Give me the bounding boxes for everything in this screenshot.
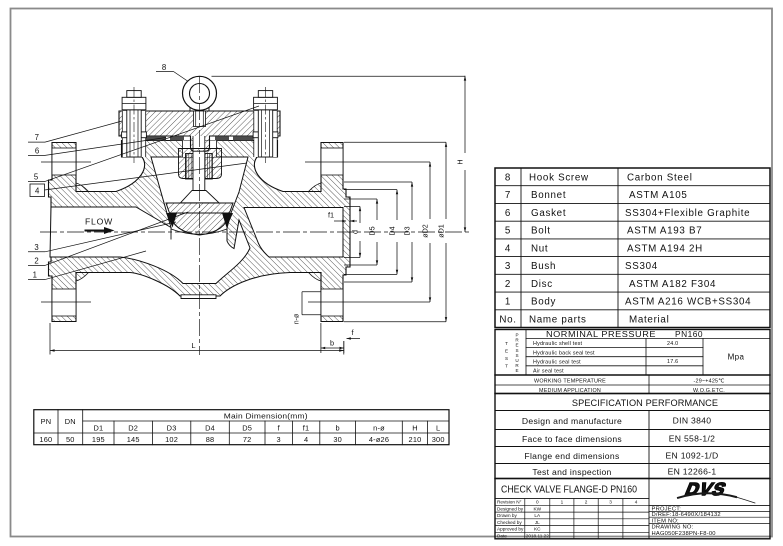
H dimension line with top connector: [212, 75, 466, 77]
svg-text:Checked by: Checked by: [497, 520, 522, 525]
svg-text:H: H: [456, 159, 465, 164]
svg-text:EN 558-1/2: EN 558-1/2: [669, 434, 715, 444]
svg-text:300: 300: [432, 435, 445, 444]
nut 4 left / centerline: [133, 87, 135, 163]
svg-text:ASTM A216 WCB+SS304: ASTM A216 WCB+SS304: [625, 297, 751, 308]
svg-text:4: 4: [505, 243, 511, 254]
dimension oD2: [429, 162, 431, 302]
svg-text:160: 160: [39, 435, 52, 444]
svg-text:T: T: [505, 341, 508, 346]
svg-text:Hook Screw: Hook Screw: [529, 173, 589, 184]
svg-text:KC: KC: [534, 527, 541, 532]
svg-text:D3: D3: [403, 226, 412, 235]
valve stem: [193, 151, 205, 191]
svg-text:n-ø: n-ø: [294, 313, 301, 324]
revision table: [495, 499, 649, 539]
svg-text:2: 2: [505, 279, 511, 290]
parts list text: [499, 173, 751, 326]
pressure test table grid: [495, 330, 770, 394]
body 1 : main casting cross-section (hatched): [49, 141, 351, 322]
disc seal faces (solid black wedges): [166, 213, 177, 228]
svg-text:Bolt: Bolt: [531, 226, 551, 237]
svg-text:EN 12266-1: EN 12266-1: [668, 467, 717, 477]
svg-text:Bonnet: Bonnet: [531, 190, 566, 201]
svg-text:D4: D4: [205, 423, 215, 432]
left flange bolt hole (bottom): [52, 289, 76, 316]
gasket 6 (dark strips): [146, 137, 166, 141]
svg-text:L: L: [191, 341, 195, 350]
pressure table text: [546, 329, 703, 339]
svg-text:T: T: [505, 364, 508, 369]
specification performance table: [495, 394, 770, 479]
project info block: [649, 512, 770, 524]
svg-text:2: 2: [34, 257, 38, 266]
dimension D5: [344, 199, 377, 265]
svg-text:Hydraulic seal test: Hydraulic seal test: [533, 359, 581, 365]
svg-text:ASTM A105: ASTM A105: [629, 190, 688, 201]
svg-text:195: 195: [92, 435, 105, 444]
svg-text:210: 210: [409, 435, 422, 444]
svg-text:2018.11.22: 2018.11.22: [526, 533, 550, 538]
svg-text:f: f: [351, 328, 354, 337]
bonnet 7 (hatched slab + center boss): [119, 111, 280, 151]
svg-text:Designed by: Designed by: [497, 506, 524, 511]
dimension n-o (bolt hole callout): [302, 292, 321, 315]
svg-text:7: 7: [505, 190, 511, 201]
svg-text:Mpa: Mpa: [728, 353, 745, 362]
svg-text:SS304: SS304: [625, 261, 658, 272]
svg-text:LA: LA: [534, 513, 541, 518]
svg-text:Revision N°: Revision N°: [497, 500, 522, 505]
right flange bolt hole (top): [321, 148, 343, 175]
svg-text:b: b: [330, 339, 334, 348]
svg-text:Material: Material: [629, 314, 669, 325]
svg-text:D/REF:18-6490X/184132: D/REF:18-6490X/184132: [652, 512, 721, 518]
svg-text:ASTM A182 F304: ASTM A182 F304: [629, 279, 716, 290]
svg-text:DN: DN: [65, 417, 76, 426]
svg-text:102: 102: [165, 435, 178, 444]
svg-text:6: 6: [35, 147, 39, 156]
svg-text:Body: Body: [531, 297, 556, 308]
nut 4 right / centerline: [265, 87, 267, 163]
svg-text:D3: D3: [167, 423, 177, 432]
svg-text:KW: KW: [534, 506, 542, 511]
svg-text:145: 145: [127, 435, 140, 444]
svg-text:ASTM A193 B7: ASTM A193 B7: [627, 226, 702, 237]
svg-text:Hydraulic shell test: Hydraulic shell test: [533, 341, 583, 347]
bolt 5 left stud: [122, 91, 147, 157]
svg-text:D4: D4: [388, 226, 397, 235]
svg-text:8: 8: [505, 173, 511, 184]
bush 3 (threaded guide bushes): [186, 154, 194, 180]
svg-text:24.0: 24.0: [667, 341, 678, 347]
svg-text:Design and manufacture: Design and manufacture: [522, 416, 622, 426]
svg-text:4: 4: [304, 435, 308, 444]
svg-text:88: 88: [206, 435, 215, 444]
svg-text:72: 72: [243, 435, 252, 444]
stem centerline: [199, 76, 201, 355]
svg-text:FLOW: FLOW: [85, 217, 113, 227]
svg-text:5: 5: [34, 173, 39, 182]
svg-text:Name parts: Name parts: [529, 314, 587, 325]
svg-text:L: L: [436, 423, 440, 432]
svg-text:17.6: 17.6: [667, 359, 678, 365]
svg-text:Disc: Disc: [531, 279, 553, 290]
svg-text:Hydraulic back seal test: Hydraulic back seal test: [533, 350, 595, 356]
parts list table grid: [495, 168, 770, 328]
svg-text:f1: f1: [303, 423, 310, 432]
svg-text:øD1: øD1: [437, 224, 446, 238]
svg-text:DIN 3840: DIN 3840: [673, 416, 712, 426]
svg-text:NORMINAL PRESSURE: NORMINAL PRESSURE: [546, 329, 656, 339]
svg-text:E: E: [515, 368, 518, 373]
svg-text:3: 3: [34, 243, 38, 252]
svg-text:E: E: [505, 349, 508, 354]
svg-text:ITEM NO:: ITEM NO:: [652, 518, 680, 524]
svg-text:D1: D1: [93, 423, 103, 432]
svg-text:Main Dimension(mm): Main Dimension(mm): [224, 412, 308, 421]
hub fillets at flange-to-pipe transitions: [76, 183, 89, 192]
svg-text:d: d: [351, 230, 360, 234]
svg-text:Drawn by: Drawn by: [497, 513, 517, 518]
svg-text:SPECIFICATION PERFORMANCE: SPECIFICATION PERFORMANCE: [572, 398, 718, 408]
svg-text:ASTM A194 2H: ASTM A194 2H: [627, 243, 703, 254]
dimension oD1: [344, 142, 446, 321]
part label 4 (boxed) leader: [30, 184, 45, 197]
svg-text:1: 1: [505, 297, 511, 308]
svg-text:Gasket: Gasket: [531, 208, 566, 219]
outlet bore cavity: [244, 208, 343, 258]
svg-text:6: 6: [505, 208, 511, 219]
internal cavity (flow passage + chamber): [50, 157, 250, 284]
svg-text:3: 3: [505, 261, 511, 272]
svg-text:No.: No.: [499, 314, 516, 325]
dimension b: [320, 323, 322, 353]
body bottom boss: [181, 295, 216, 299]
svg-text:3: 3: [277, 435, 281, 444]
svg-text:Bush: Bush: [531, 261, 556, 272]
body flange center opening: [183, 141, 217, 158]
svg-text:5: 5: [505, 226, 511, 237]
dimension D4: [344, 190, 397, 275]
svg-text:b: b: [336, 423, 340, 432]
svg-text:4: 4: [635, 500, 638, 505]
svg-text:50: 50: [66, 435, 75, 444]
left flange bolt hole (top): [52, 148, 76, 175]
hook screw 8 (eyebolt ring): [190, 105, 209, 111]
svg-text:SS304+Flexible Graphite: SS304+Flexible Graphite: [625, 208, 750, 219]
svg-text:D5: D5: [368, 226, 377, 235]
svg-text:1: 1: [561, 500, 564, 505]
svg-text:HAG050F238PN-F8-00: HAG050F238PN-F8-00: [652, 531, 716, 537]
svg-text:7: 7: [35, 133, 39, 142]
title row: check valve: [495, 479, 770, 539]
svg-text:8: 8: [162, 63, 166, 72]
svg-text:PN160: PN160: [675, 329, 703, 339]
svg-text:EN 1092-1/D: EN 1092-1/D: [666, 451, 719, 461]
svg-text:f1: f1: [328, 211, 334, 220]
dimension d: [344, 207, 360, 258]
stem guide boss (hatched): [179, 149, 222, 179]
svg-text:D5: D5: [242, 423, 252, 432]
vertical TEST PRESSURE strip: [505, 333, 519, 374]
stem hole through bonnet boss: [193, 136, 205, 151]
dimension D3: [344, 182, 412, 282]
svg-text:CHECK VALVE FLANGE-D PN160: CHECK VALVE FLANGE-D PN160: [501, 485, 637, 496]
eyebolt threaded hole in bonnet: [194, 111, 206, 127]
svg-text:Date: Date: [497, 533, 507, 538]
svg-text:Carbon Steel: Carbon Steel: [627, 173, 693, 184]
svg-text:30: 30: [333, 435, 342, 444]
svg-text:JL: JL: [535, 520, 540, 525]
svg-text:f: f: [278, 423, 281, 432]
disc 2 (plate + dome, hatched): [166, 203, 233, 213]
svg-text:H: H: [412, 423, 418, 432]
svg-text:Nut: Nut: [531, 243, 548, 254]
svg-text:2: 2: [585, 500, 588, 505]
svg-text:1: 1: [33, 271, 37, 280]
svg-text:DRAWING NO:: DRAWING NO:: [652, 525, 694, 531]
svg-text:0: 0: [536, 500, 539, 505]
right flange bolt hole (bottom): [321, 289, 343, 316]
svg-text:4: 4: [35, 187, 40, 196]
svg-text:Approved by: Approved by: [497, 527, 524, 532]
svg-text:D2: D2: [128, 423, 138, 432]
svg-text:Test and inspection: Test and inspection: [532, 467, 611, 477]
svg-text:øD2: øD2: [421, 224, 430, 238]
svg-text:S: S: [505, 356, 508, 361]
pipe centerline: [40, 231, 470, 233]
svg-text:WORKING TEMPERATURE: WORKING TEMPERATURE: [534, 379, 606, 385]
main dimension table: [34, 410, 449, 445]
svg-text:n-ø: n-ø: [373, 423, 385, 432]
DVS logo: [678, 480, 755, 503]
seat dish line under disc: [171, 229, 227, 234]
svg-text:Air seal test: Air seal test: [533, 368, 564, 374]
svg-text:-29~+425℃: -29~+425℃: [694, 379, 725, 385]
bolt 5 right stud: [253, 91, 278, 157]
svg-text:Face to face dimensions: Face to face dimensions: [522, 434, 622, 444]
bolt clearance holes through bonnet/body flange: [122, 111, 145, 157]
svg-text:PN: PN: [41, 417, 52, 426]
svg-text:Flange end dimensions: Flange end dimensions: [524, 451, 619, 461]
svg-text:4-ø26: 4-ø26: [369, 435, 389, 444]
dimension L: [49, 323, 51, 355]
svg-text:3: 3: [609, 500, 612, 505]
bolt-hole centerlines on flanges: [41, 162, 430, 302]
